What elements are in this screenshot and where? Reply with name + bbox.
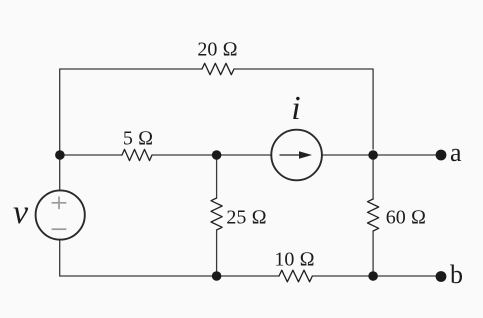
wire top-left vertical (left rail upper) bbox=[60, 69, 202, 190]
resistor R 5ohm zigzag bbox=[122, 149, 152, 160]
voltage source minus sign bbox=[52, 228, 67, 230]
resistor R 10ohm zigzag bbox=[279, 270, 312, 282]
node junction dot right bottom bbox=[368, 271, 378, 281]
wire 25ohm branch upper bbox=[216, 155, 218, 198]
node junction dot right middle bbox=[368, 150, 378, 160]
svg-text:v: v bbox=[13, 194, 29, 231]
svg-text:10 Ω: 10 Ω bbox=[274, 249, 314, 271]
wire 60ohm branch upper bbox=[372, 155, 374, 199]
svg-text:20 Ω: 20 Ω bbox=[197, 39, 237, 61]
wire 60ohm branch lower bbox=[372, 231, 374, 276]
svg-text:a: a bbox=[450, 138, 462, 167]
voltage source plus sign bbox=[52, 197, 67, 230]
wire bottom left segment bbox=[60, 275, 279, 277]
current source arrow bbox=[280, 151, 313, 159]
wire bottom right segment bbox=[312, 275, 441, 277]
node junction dot mid bottom bbox=[212, 271, 222, 281]
terminal a dot bbox=[436, 150, 447, 161]
svg-text:60 Ω: 60 Ω bbox=[386, 207, 426, 229]
current source i circle bbox=[271, 130, 322, 181]
svg-text:b: b bbox=[450, 260, 463, 289]
resistor R 20ohm zigzag bbox=[202, 63, 234, 74]
svg-text:5 Ω: 5 Ω bbox=[123, 128, 153, 150]
svg-text:25 Ω: 25 Ω bbox=[226, 207, 266, 229]
voltage source v circle bbox=[36, 190, 85, 239]
wire middle from current source to node bbox=[322, 154, 441, 156]
terminal b dot bbox=[436, 271, 447, 282]
wire top-right bbox=[234, 69, 373, 149]
wire left rail lower bbox=[59, 240, 61, 276]
resistor R 25ohm zigzag vertical bbox=[211, 198, 222, 230]
node junction dot left middle bbox=[55, 150, 65, 160]
wire middle between 5ohm and current source bbox=[152, 154, 271, 156]
node junction dot mid middle bbox=[212, 150, 222, 160]
wire middle left segment bbox=[60, 154, 122, 156]
wire 25ohm branch lower bbox=[216, 230, 218, 276]
resistor R 60ohm zigzag vertical bbox=[368, 199, 379, 231]
svg-text:i: i bbox=[291, 90, 300, 127]
